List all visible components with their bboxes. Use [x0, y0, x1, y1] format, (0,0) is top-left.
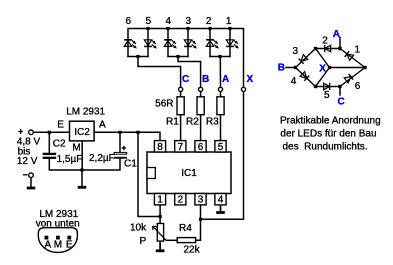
- wire edge A-RC: [340, 49, 365, 68]
- svg-text:5: 5: [218, 142, 224, 153]
- label 4: [291, 76, 297, 87]
- wire edge TL-X: [316, 49, 330, 68]
- label B (arrangement): [278, 63, 285, 74]
- LED D4: [164, 40, 176, 49]
- label C (arrangement): [338, 97, 345, 108]
- label LED number 6: [126, 16, 132, 27]
- label 56R: [155, 99, 173, 110]
- wire edge X-RC: [330, 67, 366, 69]
- junction ground rail: [80, 168, 83, 171]
- svg-text:56R: 56R: [155, 99, 173, 110]
- label X: [247, 74, 254, 85]
- junction on bus: [186, 27, 189, 30]
- wire IC2 M: [81, 141, 83, 170]
- junction pair 4-3: [176, 55, 179, 58]
- node X: [328, 66, 331, 69]
- svg-text:E: E: [66, 240, 73, 251]
- label 12 V: [17, 156, 38, 167]
- label LED number 1: [226, 16, 232, 27]
- caption line 2: [280, 128, 376, 139]
- ground at pot: [156, 243, 165, 251]
- svg-text:R3: R3: [206, 116, 219, 127]
- svg-text:B: B: [278, 63, 285, 74]
- label M (package): [54, 240, 62, 251]
- wire through LED 5: [147, 28, 149, 57]
- label +: [18, 129, 23, 134]
- node BL: [314, 85, 317, 88]
- node RC: [363, 66, 366, 69]
- LED D3: [184, 40, 196, 49]
- caption line 3: [283, 141, 368, 152]
- junction pin3 node: [199, 218, 202, 221]
- label 10k: [130, 223, 147, 234]
- IC1 pin 8: [154, 141, 165, 153]
- potentiometer wiper arrow: [153, 226, 166, 240]
- wire through LED 1: [229, 28, 231, 57]
- label 3: [293, 46, 299, 57]
- svg-text:4: 4: [291, 76, 297, 87]
- wire pot feed: [138, 132, 160, 216]
- wire wiper to R4: [166, 239, 178, 241]
- svg-text:Praktikable Anordnung: Praktikable Anordnung: [280, 115, 381, 126]
- svg-text:2: 2: [178, 195, 184, 206]
- resistor R2: [197, 97, 204, 115]
- svg-text:4: 4: [218, 195, 224, 206]
- wire A stub: [339, 37, 341, 49]
- label X (arrangement): [319, 63, 326, 74]
- label R1: [166, 116, 179, 127]
- label von unten: [36, 218, 80, 229]
- LED D6: [124, 40, 136, 49]
- svg-text:R4: R4: [179, 223, 192, 234]
- wire edge C-RC: [340, 68, 365, 87]
- terminal X: [241, 87, 245, 91]
- label E (package): [66, 240, 73, 251]
- svg-text:1: 1: [355, 45, 361, 56]
- svg-text:1: 1: [226, 16, 232, 27]
- label R2: [186, 116, 199, 127]
- wire pair 4-3 bottom: [167, 56, 188, 58]
- junction C1: [118, 131, 121, 134]
- svg-text:5: 5: [146, 16, 152, 27]
- terminal B: [199, 87, 203, 91]
- op-amp IC2 box: [70, 121, 95, 141]
- node C: [338, 85, 341, 88]
- wire top bus X net: [128, 28, 244, 30]
- potentiometer P: [157, 224, 163, 242]
- label 4,8 V: [17, 137, 41, 148]
- junction on bus: [166, 27, 169, 30]
- LED 3 (arrangement): [299, 55, 308, 64]
- label 1: [355, 45, 361, 56]
- LED 4 (arrangement): [300, 72, 309, 81]
- label 2,2µF: [89, 153, 115, 164]
- capacitor C2: [43, 154, 57, 158]
- svg-text:C: C: [182, 74, 189, 85]
- svg-text:A: A: [45, 240, 52, 251]
- wire C1 bottom: [119, 159, 121, 171]
- IC1 notch: [147, 168, 155, 179]
- wire pin3 down: [200, 205, 202, 219]
- svg-text:C1: C1: [124, 159, 137, 170]
- label IC1: [181, 168, 197, 179]
- junction C2: [48, 131, 51, 134]
- LED 1 (arrangement): [345, 51, 354, 60]
- IC1 pin 2: [175, 194, 186, 206]
- wire through LED 2: [209, 28, 211, 57]
- LED 5 (arrangement): [324, 83, 330, 90]
- IC1 pin 4: [215, 194, 226, 206]
- wire C2 top: [48, 132, 50, 153]
- wire through LED 6: [127, 28, 129, 57]
- svg-text:A: A: [99, 120, 106, 131]
- junction pot feed: [136, 131, 139, 134]
- wire R2 top lead: [200, 92, 202, 97]
- label LM 2931 (package): [39, 209, 78, 220]
- junction pot top: [159, 215, 162, 218]
- wire C stub: [339, 87, 341, 96]
- wire through LED 4: [167, 28, 169, 57]
- label LED number 4: [166, 16, 172, 27]
- wire edge TL-A: [316, 48, 341, 50]
- svg-text:R2: R2: [186, 116, 199, 127]
- terminal - input: [29, 173, 34, 178]
- package pin M: [56, 236, 60, 240]
- svg-text:2: 2: [206, 16, 212, 27]
- junction on bus: [146, 27, 149, 30]
- wire R1 bottom lead: [180, 115, 182, 141]
- label R3: [206, 116, 219, 127]
- svg-text:3: 3: [186, 16, 192, 27]
- svg-text:C: C: [338, 97, 345, 108]
- label LM 2931: [66, 107, 105, 118]
- wire pin4 to ground: [220, 205, 222, 212]
- label C2: [53, 138, 66, 149]
- wire tap pair3 to A: [219, 57, 222, 88]
- wire + to IC2 E: [33, 131, 70, 133]
- svg-text:6: 6: [198, 142, 204, 153]
- wire edge B-BL: [296, 68, 316, 87]
- capacitor C1: [114, 152, 127, 158]
- wire through LED 3: [187, 28, 189, 57]
- wire R4 to pin3 node: [196, 219, 201, 240]
- label C: [182, 74, 189, 85]
- label C1: [124, 159, 137, 170]
- label A: [222, 74, 229, 85]
- label LED number 5: [146, 16, 152, 27]
- svg-text:12 V: 12 V: [17, 156, 38, 167]
- label minus: [23, 174, 28, 176]
- node B: [294, 66, 297, 69]
- svg-text:R1: R1: [166, 116, 179, 127]
- wire edge BL-X: [316, 68, 330, 87]
- svg-text:LM 2931: LM 2931: [66, 107, 105, 118]
- label 5: [324, 90, 330, 101]
- label 1,5µF: [57, 154, 83, 165]
- wire edge B-TL: [296, 49, 316, 68]
- svg-text:der LEDs für den Bau: der LEDs für den Bau: [280, 128, 376, 139]
- svg-text:3: 3: [198, 195, 204, 206]
- svg-text:X: X: [247, 74, 254, 85]
- IC1 pin 7: [175, 141, 186, 153]
- resistor R3: [217, 97, 224, 115]
- svg-text:E: E: [57, 120, 64, 131]
- svg-text:A: A: [222, 74, 229, 85]
- label R4: [179, 223, 192, 234]
- ground at - input: [27, 178, 36, 189]
- svg-text:6: 6: [355, 81, 361, 92]
- label E: [57, 120, 64, 131]
- svg-text:C2: C2: [53, 138, 66, 149]
- svg-text:des Rundumlichts.: des Rundumlichts.: [283, 141, 368, 152]
- wire pin1 to pot: [159, 205, 161, 224]
- label bis: [18, 147, 31, 158]
- wire R3 top lead: [220, 92, 222, 97]
- package pin A: [45, 236, 49, 240]
- wire C1 top: [119, 132, 121, 153]
- IC1 pin 3: [195, 194, 206, 206]
- svg-text:4: 4: [166, 16, 172, 27]
- wire R2 bottom lead: [200, 115, 202, 141]
- LED D2: [206, 40, 218, 49]
- wire X down: [243, 28, 245, 88]
- svg-text:6: 6: [126, 16, 132, 27]
- label LED number 3: [186, 16, 192, 27]
- node TL: [314, 47, 317, 50]
- junction pair 2-1: [218, 55, 221, 58]
- LM2931 package outline: [38, 228, 77, 253]
- label 22k: [184, 245, 201, 256]
- LED 2 (arrangement): [325, 45, 331, 52]
- wire pair 6-5 bottom: [127, 56, 148, 58]
- wire B stub: [285, 67, 295, 69]
- svg-text:10k: 10k: [130, 223, 147, 234]
- ground at pin4: [216, 205, 225, 213]
- IC1 pin 6: [195, 141, 206, 153]
- terminal C: [179, 87, 183, 91]
- label A (arrangement): [333, 29, 340, 40]
- label + of C1: [122, 146, 126, 150]
- svg-text:M: M: [54, 240, 62, 251]
- svg-text:2,2µF: 2,2µF: [89, 153, 115, 164]
- IC1 pin 1: [154, 194, 165, 206]
- resistor R4: [177, 238, 195, 243]
- svg-text:2: 2: [322, 35, 328, 46]
- label M: [72, 143, 80, 154]
- LED D5: [144, 40, 156, 49]
- junction on bus: [208, 27, 211, 30]
- label 6: [355, 81, 361, 92]
- label 2: [322, 35, 328, 46]
- svg-text:A: A: [333, 29, 340, 40]
- wire edge BL-C: [316, 86, 341, 88]
- wire R1 top lead: [180, 92, 182, 97]
- resistor R1: [177, 97, 184, 115]
- terminal A: [218, 87, 222, 91]
- wire tap pair2 to B: [178, 57, 201, 88]
- svg-text:M: M: [72, 143, 80, 154]
- svg-text:1,5µF: 1,5µF: [57, 154, 83, 165]
- wire C2 bottom / ground rail: [49, 158, 120, 170]
- LED 6 (arrangement): [344, 74, 353, 83]
- svg-text:8: 8: [157, 142, 163, 153]
- IC1 body: [147, 152, 231, 194]
- node A: [338, 47, 341, 50]
- caption line 1: [280, 115, 381, 126]
- svg-text:3: 3: [293, 46, 299, 57]
- junction on bus: [228, 27, 231, 30]
- label LED number 2: [206, 16, 212, 27]
- wire pin3 node to X: [201, 91, 244, 219]
- LED D1: [226, 40, 238, 49]
- label A: [99, 120, 106, 131]
- svg-text:P: P: [140, 236, 147, 247]
- svg-text:1: 1: [157, 195, 163, 206]
- package pin E: [67, 236, 71, 240]
- label B: [202, 74, 209, 85]
- label A (package): [45, 240, 52, 251]
- wire pot bottom: [159, 241, 161, 251]
- wire tap pair1 to C: [138, 57, 181, 88]
- ground at rail: [78, 170, 87, 187]
- wire IC2 A to IC1 pin8: [94, 132, 160, 140]
- svg-text:22k: 22k: [184, 245, 201, 256]
- terminal + input: [29, 130, 34, 135]
- svg-text:7: 7: [178, 142, 184, 153]
- svg-text:5: 5: [324, 90, 330, 101]
- wire R3 bottom lead: [220, 115, 222, 141]
- wire pair 2-1 bottom: [209, 56, 230, 58]
- junction pair 6-5: [136, 55, 139, 58]
- svg-text:IC2: IC2: [74, 127, 90, 138]
- svg-text:IC1: IC1: [181, 168, 197, 179]
- label P: [140, 236, 147, 247]
- IC1 pin 5: [215, 141, 226, 153]
- svg-text:B: B: [202, 74, 209, 85]
